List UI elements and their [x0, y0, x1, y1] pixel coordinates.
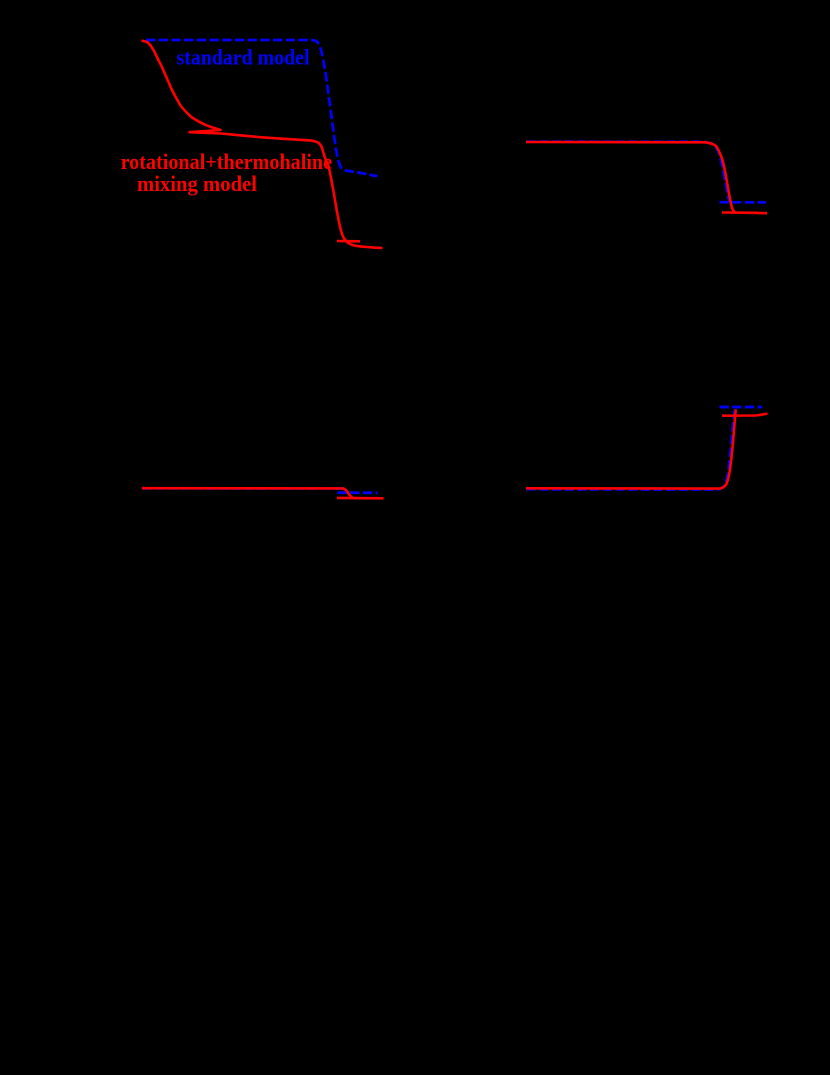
svg-text:standard model: standard model — [177, 45, 310, 70]
svg-text:mixing model: mixing model — [137, 171, 257, 196]
